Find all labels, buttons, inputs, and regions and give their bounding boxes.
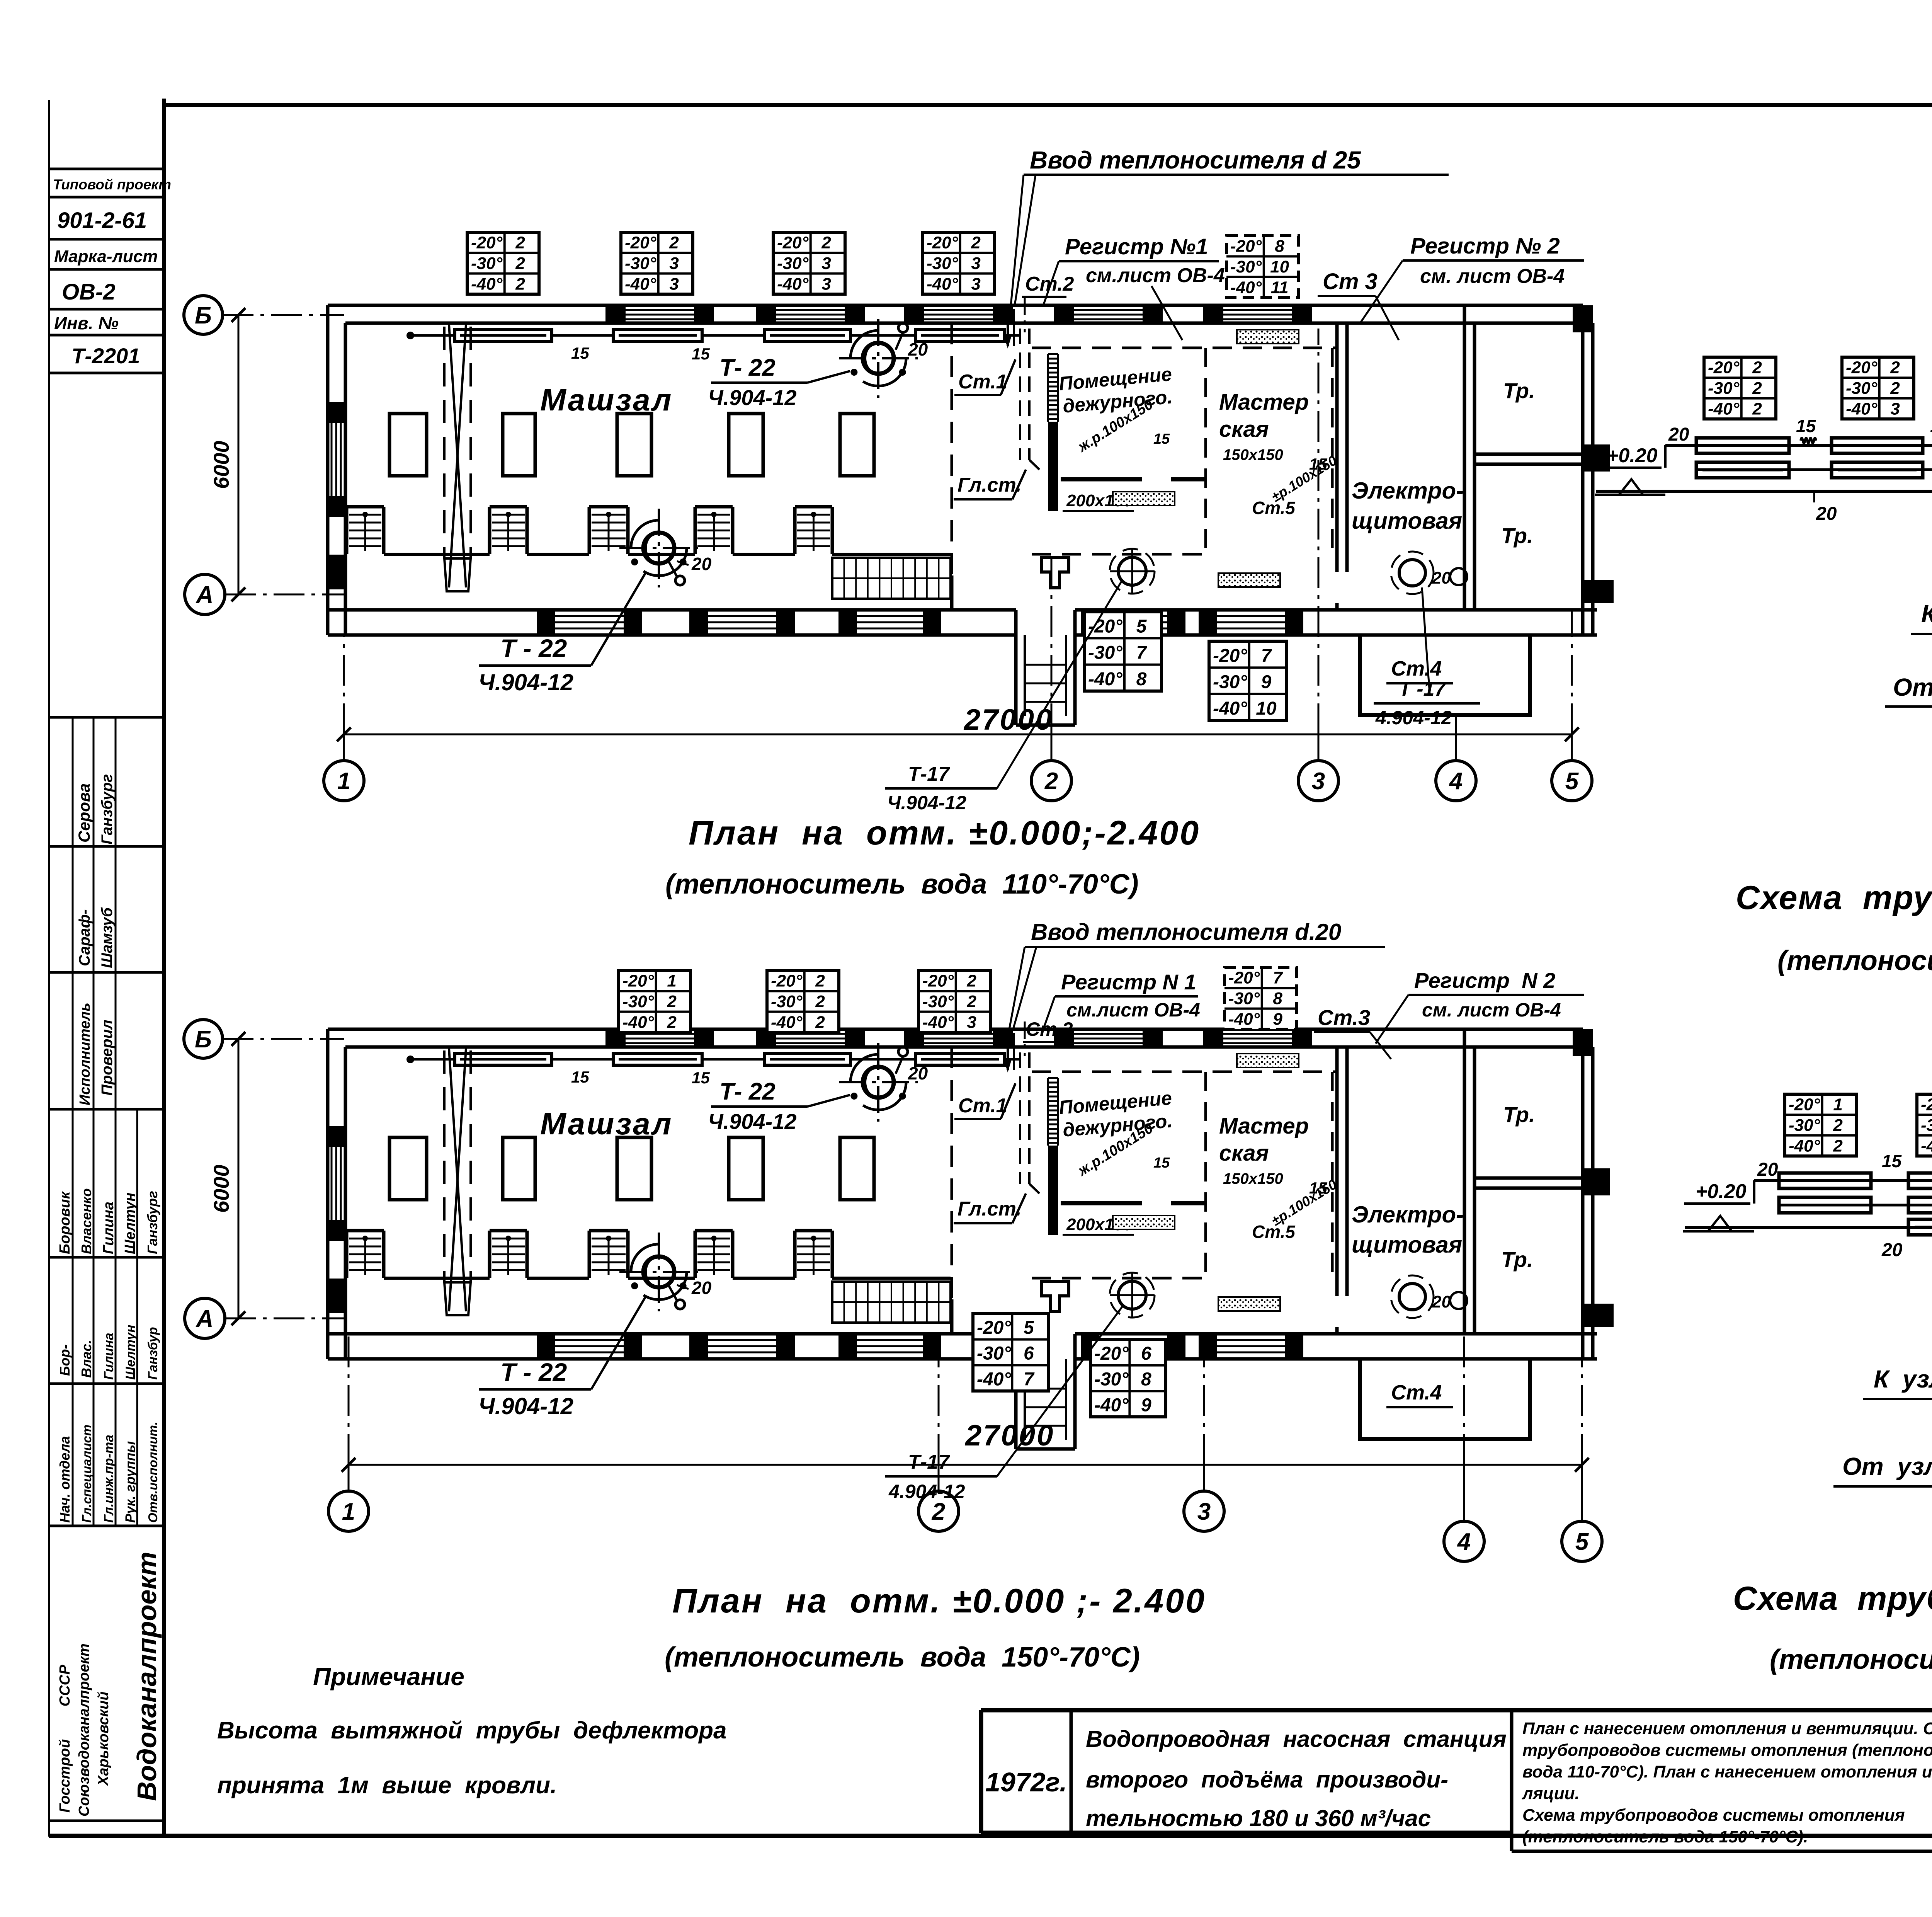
svg-text:Гл.ст.: Гл.ст.	[957, 1198, 1022, 1220]
radiator	[1696, 438, 1789, 453]
svg-text:Тр.: Тр.	[1503, 1102, 1535, 1127]
svg-text:Регистр № 2: Регистр № 2	[1410, 233, 1560, 259]
scheme1: bottom pipe	[1596, 491, 1932, 524]
stair bay	[347, 1231, 384, 1278]
table s1-t1	[1704, 357, 1776, 419]
svg-text:Регистр N 1: Регистр N 1	[1061, 970, 1196, 994]
svg-text:Т - 22: Т - 22	[500, 634, 567, 662]
plan1: cross pier	[1042, 558, 1069, 588]
svg-text:2: 2	[1833, 1136, 1843, 1155]
svg-text:-20°: -20°	[1708, 358, 1740, 377]
plan2: small fan left	[1110, 1273, 1155, 1318]
plan2: fan tap lower	[668, 1285, 685, 1309]
svg-text:вода 110-70°С). План с нанесен: вода 110-70°С). План с нанесением отопле…	[1522, 1762, 1932, 1781]
table p1-t7	[1209, 641, 1286, 720]
svg-text:2: 2	[932, 1498, 945, 1525]
plan1: label Электрощитовая	[1352, 478, 1464, 534]
svg-text:1: 1	[667, 972, 676, 991]
plan2: exhaust shaft	[444, 1049, 471, 1315]
svg-text:4: 4	[1449, 768, 1463, 795]
svg-text:см.лист ОВ-4: см.лист ОВ-4	[1086, 264, 1225, 287]
svg-text:2: 2	[669, 233, 679, 252]
svg-text:-40°: -40°	[1230, 278, 1262, 297]
plan1: left wall	[328, 305, 345, 635]
plan1: electro room wall	[1337, 323, 1347, 610]
plan1 label Регистр №1	[1043, 234, 1225, 340]
plan2 label Ввод теплоносителя d20	[1009, 919, 1385, 1029]
svg-text:5: 5	[1565, 768, 1579, 795]
svg-text:-20°: -20°	[1846, 358, 1878, 377]
sidebar section dividers 2516	[73, 972, 116, 1109]
svg-text:-30°: -30°	[1230, 257, 1262, 276]
svg-text:6000: 6000	[209, 441, 233, 489]
svg-text:ская: ская	[1219, 417, 1269, 442]
stair bay	[347, 507, 384, 554]
svg-text:Влас.: Влас.	[78, 1340, 94, 1378]
radiator	[1908, 1197, 1932, 1213]
grid axis bubble Б2	[184, 1020, 223, 1058]
svg-text:Т-2201: Т-2201	[71, 344, 140, 368]
svg-text:2: 2	[1833, 1116, 1843, 1135]
svg-text:-30°: -30°	[625, 254, 656, 273]
svg-text:4: 4	[1457, 1529, 1471, 1555]
svg-text:Ч.904-12: Ч.904-12	[708, 385, 797, 410]
leader axis 3	[1318, 734, 1320, 761]
svg-text:щитовая: щитовая	[1352, 1232, 1462, 1258]
plan2: hall inner edge	[345, 1277, 951, 1280]
table p2-t7	[1090, 1340, 1166, 1417]
svg-text:150х150: 150х150	[1223, 446, 1283, 463]
svg-text:Харьковский: Харьковский	[95, 1691, 112, 1786]
svg-text:Водопроводная насосная станц: Водопроводная насосная станция	[1086, 1726, 1507, 1752]
svg-text:Исполнитель: Исполнитель	[77, 1003, 93, 1105]
radiator	[613, 1054, 702, 1065]
svg-text:2: 2	[667, 1013, 677, 1032]
note Примечание	[217, 1663, 727, 1799]
plan1: label Мастерская	[1219, 390, 1340, 518]
plan2: right wall	[1573, 1029, 1614, 1359]
svg-text:Схема трубопроводов системы: Схема трубопроводов системы отопления.	[1733, 1580, 1932, 1617]
svg-text:+0.20: +0.20	[1696, 1180, 1747, 1203]
svg-text:Гилина: Гилина	[100, 1202, 117, 1254]
radiator	[916, 330, 1005, 341]
svg-text:Ст.1: Ст.1	[958, 371, 1007, 393]
svg-text:2: 2	[966, 992, 976, 1011]
title block	[981, 1710, 1932, 1857]
svg-text:-30°: -30°	[1213, 672, 1247, 693]
svg-text:15: 15	[1930, 416, 1932, 436]
svg-text:Шамзуб: Шамзуб	[99, 907, 116, 968]
svg-text:2: 2	[815, 972, 825, 991]
plan1: fan tap	[896, 323, 908, 350]
svg-text:(теплоноситель вода 110°-70°: (теплоноситель вода 110°-70°С)	[665, 869, 1139, 900]
svg-text:-40°: -40°	[771, 1013, 803, 1032]
svg-text:ская: ская	[1219, 1141, 1269, 1166]
svg-text:9: 9	[1141, 1395, 1151, 1415]
svg-text:Т- 22: Т- 22	[719, 354, 776, 381]
svg-text:2: 2	[1752, 379, 1762, 398]
svg-text:9: 9	[1273, 1010, 1282, 1028]
svg-text:Сараф-: Сараф-	[76, 909, 93, 966]
svg-text:Электро-: Электро-	[1352, 478, 1464, 504]
plan1: duty room wall stub	[1061, 477, 1142, 482]
svg-text:5: 5	[1575, 1529, 1589, 1555]
plan1: label Ст.1	[954, 359, 1015, 395]
roof fan Т-22 lower	[619, 509, 698, 587]
title cell object name	[1086, 1726, 1507, 1831]
plan1 dim line 27000	[337, 703, 1579, 741]
plan2: Тр rooms	[1464, 1029, 1583, 1334]
svg-text:3: 3	[669, 254, 679, 273]
svg-text:см. лист ОВ-4: см. лист ОВ-4	[1422, 999, 1561, 1021]
svg-text:Власенко: Власенко	[78, 1188, 94, 1254]
leader axis 5	[1571, 734, 1573, 761]
plan1 label Т-17 bottom	[885, 580, 1122, 814]
svg-text:Регистр №1: Регистр №1	[1065, 234, 1208, 259]
radiator	[613, 330, 702, 341]
table s1-t2	[1842, 357, 1914, 419]
plan1: equipment pillars	[389, 414, 874, 476]
table p2-t2	[767, 970, 839, 1032]
svg-text:От узла ввода: От узла ввода	[1842, 1452, 1932, 1480]
plan1: dashed partition at axis 2	[951, 323, 953, 610]
svg-text:Тр.: Тр.	[1501, 1247, 1533, 1272]
stair bay	[795, 507, 832, 554]
table p1-t1	[467, 232, 539, 294]
sidebar stamp column	[49, 169, 164, 1821]
svg-text:Ст.2: Ст.2	[1025, 273, 1074, 295]
plan1: Ст.4 bay	[1360, 635, 1530, 715]
plan2 label Регистр N 1	[1043, 970, 1200, 1029]
svg-text:Ст.3: Ст.3	[1318, 1005, 1370, 1030]
rotated organization block	[57, 1552, 162, 1817]
plan2: dashed partition at axis 2	[951, 1047, 953, 1334]
svg-text:15: 15	[692, 1069, 710, 1087]
svg-text:Т-17: Т-17	[908, 1451, 950, 1473]
plan2: label 200х150 + duct	[1063, 1215, 1134, 1235]
svg-text:-30°: -30°	[771, 992, 803, 1011]
radiator	[764, 1054, 850, 1065]
svg-text:-20°: -20°	[622, 972, 654, 991]
plan1 label Ввод теплоносителя d 25	[1011, 146, 1449, 305]
svg-text:(теплоноситель вода 110°-70°: (теплоноситель вода 110°-70°С)	[1777, 945, 1932, 976]
svg-text:-20°: -20°	[1213, 645, 1247, 666]
svg-text:Ст.4: Ст.4	[1391, 1381, 1442, 1404]
svg-text:-40°: -40°	[622, 1013, 654, 1032]
table p1-t5	[1226, 236, 1298, 298]
svg-text:20: 20	[908, 339, 928, 359]
svg-text:3: 3	[821, 254, 831, 273]
svg-text:2: 2	[667, 992, 677, 1011]
svg-text:7: 7	[1136, 643, 1148, 663]
stair bay	[589, 507, 628, 554]
scheme1: От узла ввода	[1885, 642, 1932, 736]
svg-text:Ганзбург: Ганзбург	[145, 1191, 160, 1254]
rotated names block	[57, 1188, 160, 1254]
table s2-t1	[1785, 1094, 1857, 1156]
svg-text:Гл.инж.пр-та: Гл.инж.пр-та	[102, 1435, 116, 1523]
stair bay	[589, 1231, 628, 1278]
svg-text:-20°: -20°	[1789, 1095, 1820, 1114]
sidebar section dividers 1856	[73, 717, 116, 846]
svg-text:2: 2	[1044, 768, 1058, 795]
plan1 axis Б line	[223, 314, 344, 316]
svg-text:2: 2	[815, 992, 825, 1011]
svg-text:10: 10	[1270, 257, 1289, 276]
stair bay	[695, 507, 733, 554]
svg-text:-30°: -30°	[1789, 1116, 1820, 1135]
table p2-t1	[619, 970, 690, 1032]
svg-text:15: 15	[1153, 1155, 1170, 1171]
svg-text:15: 15	[1796, 416, 1816, 436]
svg-text:-40°: -40°	[1846, 399, 1878, 418]
svg-text:Гл.ст.: Гл.ст.	[957, 474, 1022, 496]
plan2: cross pier	[1042, 1282, 1069, 1312]
svg-text:Отв.исполнит.: Отв.исполнит.	[146, 1422, 160, 1523]
leader axis 4	[1455, 734, 1457, 761]
grid axis bubble p2-4	[1444, 1521, 1484, 1561]
svg-text:Схема трубопроводов системы: Схема трубопроводов системы отопления	[1736, 879, 1932, 916]
svg-text:2: 2	[515, 254, 525, 273]
svg-text:15: 15	[571, 344, 589, 362]
svg-text:901-2-61: 901-2-61	[57, 208, 147, 233]
plan1: heat input pipes	[1005, 298, 1025, 346]
plan1: Тр rooms	[1464, 305, 1583, 610]
svg-text:А: А	[196, 1306, 214, 1332]
svg-text:-40°: -40°	[471, 274, 503, 293]
table p1-t6	[1084, 612, 1162, 691]
svg-text:А: А	[196, 582, 214, 608]
plan2: top radiators	[406, 1056, 455, 1063]
scheme1: mid pipe	[1696, 468, 1932, 471]
svg-text:2: 2	[515, 274, 525, 293]
svg-text:-40°: -40°	[1094, 1395, 1129, 1415]
svg-text:1: 1	[342, 1498, 355, 1525]
svg-text:3: 3	[971, 254, 980, 273]
scheme2: supply pipes	[1685, 1159, 1932, 1260]
svg-text:2: 2	[966, 972, 976, 991]
svg-text:-20°: -20°	[471, 233, 503, 252]
svg-text:20: 20	[1816, 504, 1837, 524]
svg-text:-20°: -20°	[1094, 1343, 1129, 1364]
svg-text:Тр.: Тр.	[1503, 378, 1535, 403]
svg-text:(теплоноситель вода 150°-70°: (теплоноситель вода 150°-70°С)	[1770, 1644, 1932, 1675]
svg-text:20: 20	[691, 1278, 712, 1298]
plan2 dim line 27000	[342, 1419, 1589, 1472]
plan2: hatched duct	[1113, 1216, 1175, 1229]
grid axis bubble Б1	[184, 296, 223, 334]
svg-text:Гл.специалист: Гл.специалист	[80, 1425, 94, 1523]
scheme1: +0.20 mark	[1595, 444, 1665, 495]
svg-text:План с нанесением отопления и: План с нанесением отопления и вентиляции…	[1522, 1719, 1932, 1738]
svg-text:10: 10	[1256, 698, 1277, 719]
svg-text:(теплоноситель вода 150°-70°: (теплоноситель вода 150°-70°С)	[665, 1642, 1140, 1673]
svg-text:2: 2	[1752, 358, 1762, 377]
svg-text:-20°: -20°	[771, 972, 803, 991]
svg-text:Машзал: Машзал	[540, 383, 673, 417]
plan2: bottom wall	[328, 1334, 1597, 1359]
plan2: electro room wall	[1337, 1047, 1347, 1334]
svg-text:Схема трубопроводов системы от: Схема трубопроводов системы отопления	[1522, 1806, 1905, 1825]
plan1: label Помещение дежурного	[1058, 363, 1173, 456]
plan2: label Электрощитовая	[1352, 1202, 1464, 1258]
svg-text:Ганзбург: Ганзбург	[99, 774, 116, 844]
svg-text:20: 20	[908, 1063, 928, 1083]
svg-text:Нач. отдела: Нач. отдела	[57, 1436, 73, 1523]
sidebar section dividers 3580	[73, 1384, 137, 1526]
leader axis 2	[1051, 734, 1053, 761]
svg-text:Т - 22: Т - 22	[500, 1358, 567, 1386]
svg-text:-30°: -30°	[1921, 1116, 1932, 1135]
svg-text:Шелтун: Шелтун	[123, 1325, 138, 1380]
svg-text:+0.20: +0.20	[1607, 444, 1658, 467]
svg-text:3: 3	[1197, 1498, 1211, 1525]
radiator	[455, 1054, 552, 1065]
plan1: riser channel dashed	[1020, 329, 1039, 470]
plan1: label Т-22 lower	[478, 554, 712, 695]
sidebar section dividers 3253	[73, 1257, 137, 1384]
svg-text:Типовой проект: Типовой проект	[53, 177, 171, 192]
svg-text:Ч.904-12: Ч.904-12	[478, 669, 573, 695]
plan2 vertical dim 6000	[209, 1032, 245, 1325]
plan1: label 200х150 + duct	[1063, 491, 1134, 511]
plan2: top wall	[328, 1029, 1583, 1047]
plan1 axis А line	[225, 594, 344, 596]
plan1: top wall	[328, 305, 1583, 323]
svg-text:8: 8	[1275, 237, 1284, 256]
svg-text:-30°: -30°	[1708, 379, 1740, 398]
svg-text:Водоканалпроект: Водоканалпроект	[132, 1552, 162, 1801]
plan2: duty room wall stub	[1061, 1201, 1142, 1205]
svg-text:-40°: -40°	[1088, 669, 1122, 690]
plan2: label Помещение дежурного	[1058, 1087, 1173, 1180]
radiator	[764, 330, 850, 341]
svg-text:5: 5	[1024, 1318, 1034, 1338]
svg-text:20: 20	[1881, 1240, 1903, 1260]
plan1 label Ст.2	[1022, 273, 1074, 297]
svg-text:Шелтун: Шелтун	[122, 1193, 138, 1254]
plan2: label Т-22 upper	[708, 1078, 850, 1134]
plan2: label Ст.1	[954, 1083, 1015, 1119]
plan1: entrance stair grid	[832, 558, 951, 599]
svg-text:Тр.: Тр.	[1501, 523, 1533, 548]
svg-text:Ч.904-12: Ч.904-12	[887, 792, 966, 814]
svg-text:-20°: -20°	[927, 233, 958, 252]
plan1: fan tap lower	[668, 561, 685, 585]
svg-text:щитовая: щитовая	[1352, 508, 1462, 534]
grid axis bubble p1-2	[1031, 761, 1071, 801]
table s2-t2	[1917, 1094, 1932, 1156]
svg-text:Б: Б	[195, 1026, 212, 1053]
plan1: small fan left	[1110, 549, 1155, 594]
plan2: heat input pipes	[1005, 1021, 1025, 1070]
plan1 vertical dim 6000	[209, 308, 245, 601]
svg-text:Ст 3: Ст 3	[1323, 269, 1378, 294]
svg-text:2: 2	[821, 233, 831, 252]
plan1: duty room dashed walls	[1032, 348, 1337, 554]
table p2-t6	[973, 1314, 1048, 1391]
scheme2: 15 labels	[1882, 1151, 1932, 1171]
scheme1: К узлу ввода	[1911, 581, 1932, 659]
svg-text:-30°: -30°	[1088, 643, 1122, 663]
svg-text:Электро-: Электро-	[1352, 1202, 1464, 1227]
svg-text:Т- 22: Т- 22	[719, 1078, 776, 1105]
svg-text:6000: 6000	[209, 1165, 233, 1213]
svg-text:-40°: -40°	[777, 274, 809, 293]
stair bay	[490, 507, 527, 554]
radiator	[1779, 1197, 1871, 1213]
plan2 axis lines	[223, 1038, 344, 1040]
svg-text:-30°: -30°	[471, 254, 503, 273]
svg-text:20: 20	[691, 554, 712, 574]
svg-text:принята 1м выше кровли.: принята 1м выше кровли.	[217, 1772, 557, 1799]
svg-text:2: 2	[1752, 399, 1762, 418]
radiator	[1696, 462, 1789, 478]
svg-text:20: 20	[1432, 1292, 1451, 1311]
svg-text:15: 15	[1153, 431, 1170, 447]
svg-text:Высота вытяжной трубы дефле: Высота вытяжной трубы дефлектора	[217, 1717, 727, 1744]
svg-text:-20°: -20°	[977, 1318, 1011, 1338]
radiator	[455, 330, 552, 341]
svg-text:-40°: -40°	[1213, 698, 1247, 719]
radiator	[916, 1054, 1005, 1065]
sidebar section dividers 2190	[73, 846, 116, 972]
svg-text:Инв. №: Инв. №	[54, 313, 119, 333]
plan2: label Гл.ст.	[954, 1193, 1026, 1223]
plan2: duty room dashed walls	[1032, 1072, 1337, 1278]
svg-text:3: 3	[967, 1013, 976, 1032]
svg-text:1972г.: 1972г.	[985, 1767, 1067, 1797]
svg-text:3: 3	[1312, 768, 1325, 795]
grid axis bubble А1	[185, 574, 225, 615]
svg-text:Марка-лист: Марка-лист	[54, 247, 158, 266]
svg-text:см. лист ОВ-4: см. лист ОВ-4	[1420, 265, 1565, 288]
roof fan Т-22 lower	[619, 1233, 698, 1311]
svg-text:7: 7	[1273, 969, 1283, 987]
table p2-t3	[918, 970, 990, 1032]
svg-text:-20°: -20°	[922, 972, 954, 991]
svg-text:Мастер: Мастер	[1219, 390, 1309, 415]
svg-text:27000: 27000	[963, 703, 1053, 736]
svg-text:7: 7	[1261, 645, 1272, 666]
svg-text:1: 1	[1833, 1095, 1842, 1114]
svg-text:20: 20	[1432, 569, 1451, 587]
table p2-t4	[1225, 967, 1296, 1029]
table p1-t4	[923, 232, 995, 294]
roof fan Т-22 upper	[839, 319, 918, 398]
svg-text:15: 15	[571, 1068, 589, 1086]
plan2: label Т-22 lower	[478, 1278, 712, 1419]
scheme1: supply pipe top	[1665, 424, 1932, 468]
svg-text:Проверил: Проверил	[99, 1020, 116, 1096]
svg-text:(теплоноситель вода 150°-70°С): (теплоноситель вода 150°-70°С).	[1522, 1827, 1808, 1846]
svg-text:-30°: -30°	[977, 1343, 1011, 1364]
plan2 label Ст.2	[1023, 1018, 1073, 1042]
plan1: right wall	[1573, 305, 1614, 635]
svg-text:2: 2	[971, 233, 981, 252]
grid axis bubble p2-3	[1184, 1491, 1224, 1531]
svg-text:3: 3	[1890, 399, 1900, 418]
svg-text:Госстрой СССР: Госстрой СССР	[57, 1665, 73, 1813]
plan2: entrance vestibule	[1016, 1334, 1075, 1449]
radiator	[1832, 462, 1923, 478]
svg-text:-40°: -40°	[1789, 1136, 1820, 1155]
grid axis bubble p2-2	[918, 1491, 959, 1531]
plan2: fan tap	[896, 1047, 908, 1074]
radiator	[1908, 1219, 1932, 1235]
plan1 label Ст 3	[1318, 269, 1399, 340]
plan1: vertical duct dark bar	[1048, 354, 1058, 511]
